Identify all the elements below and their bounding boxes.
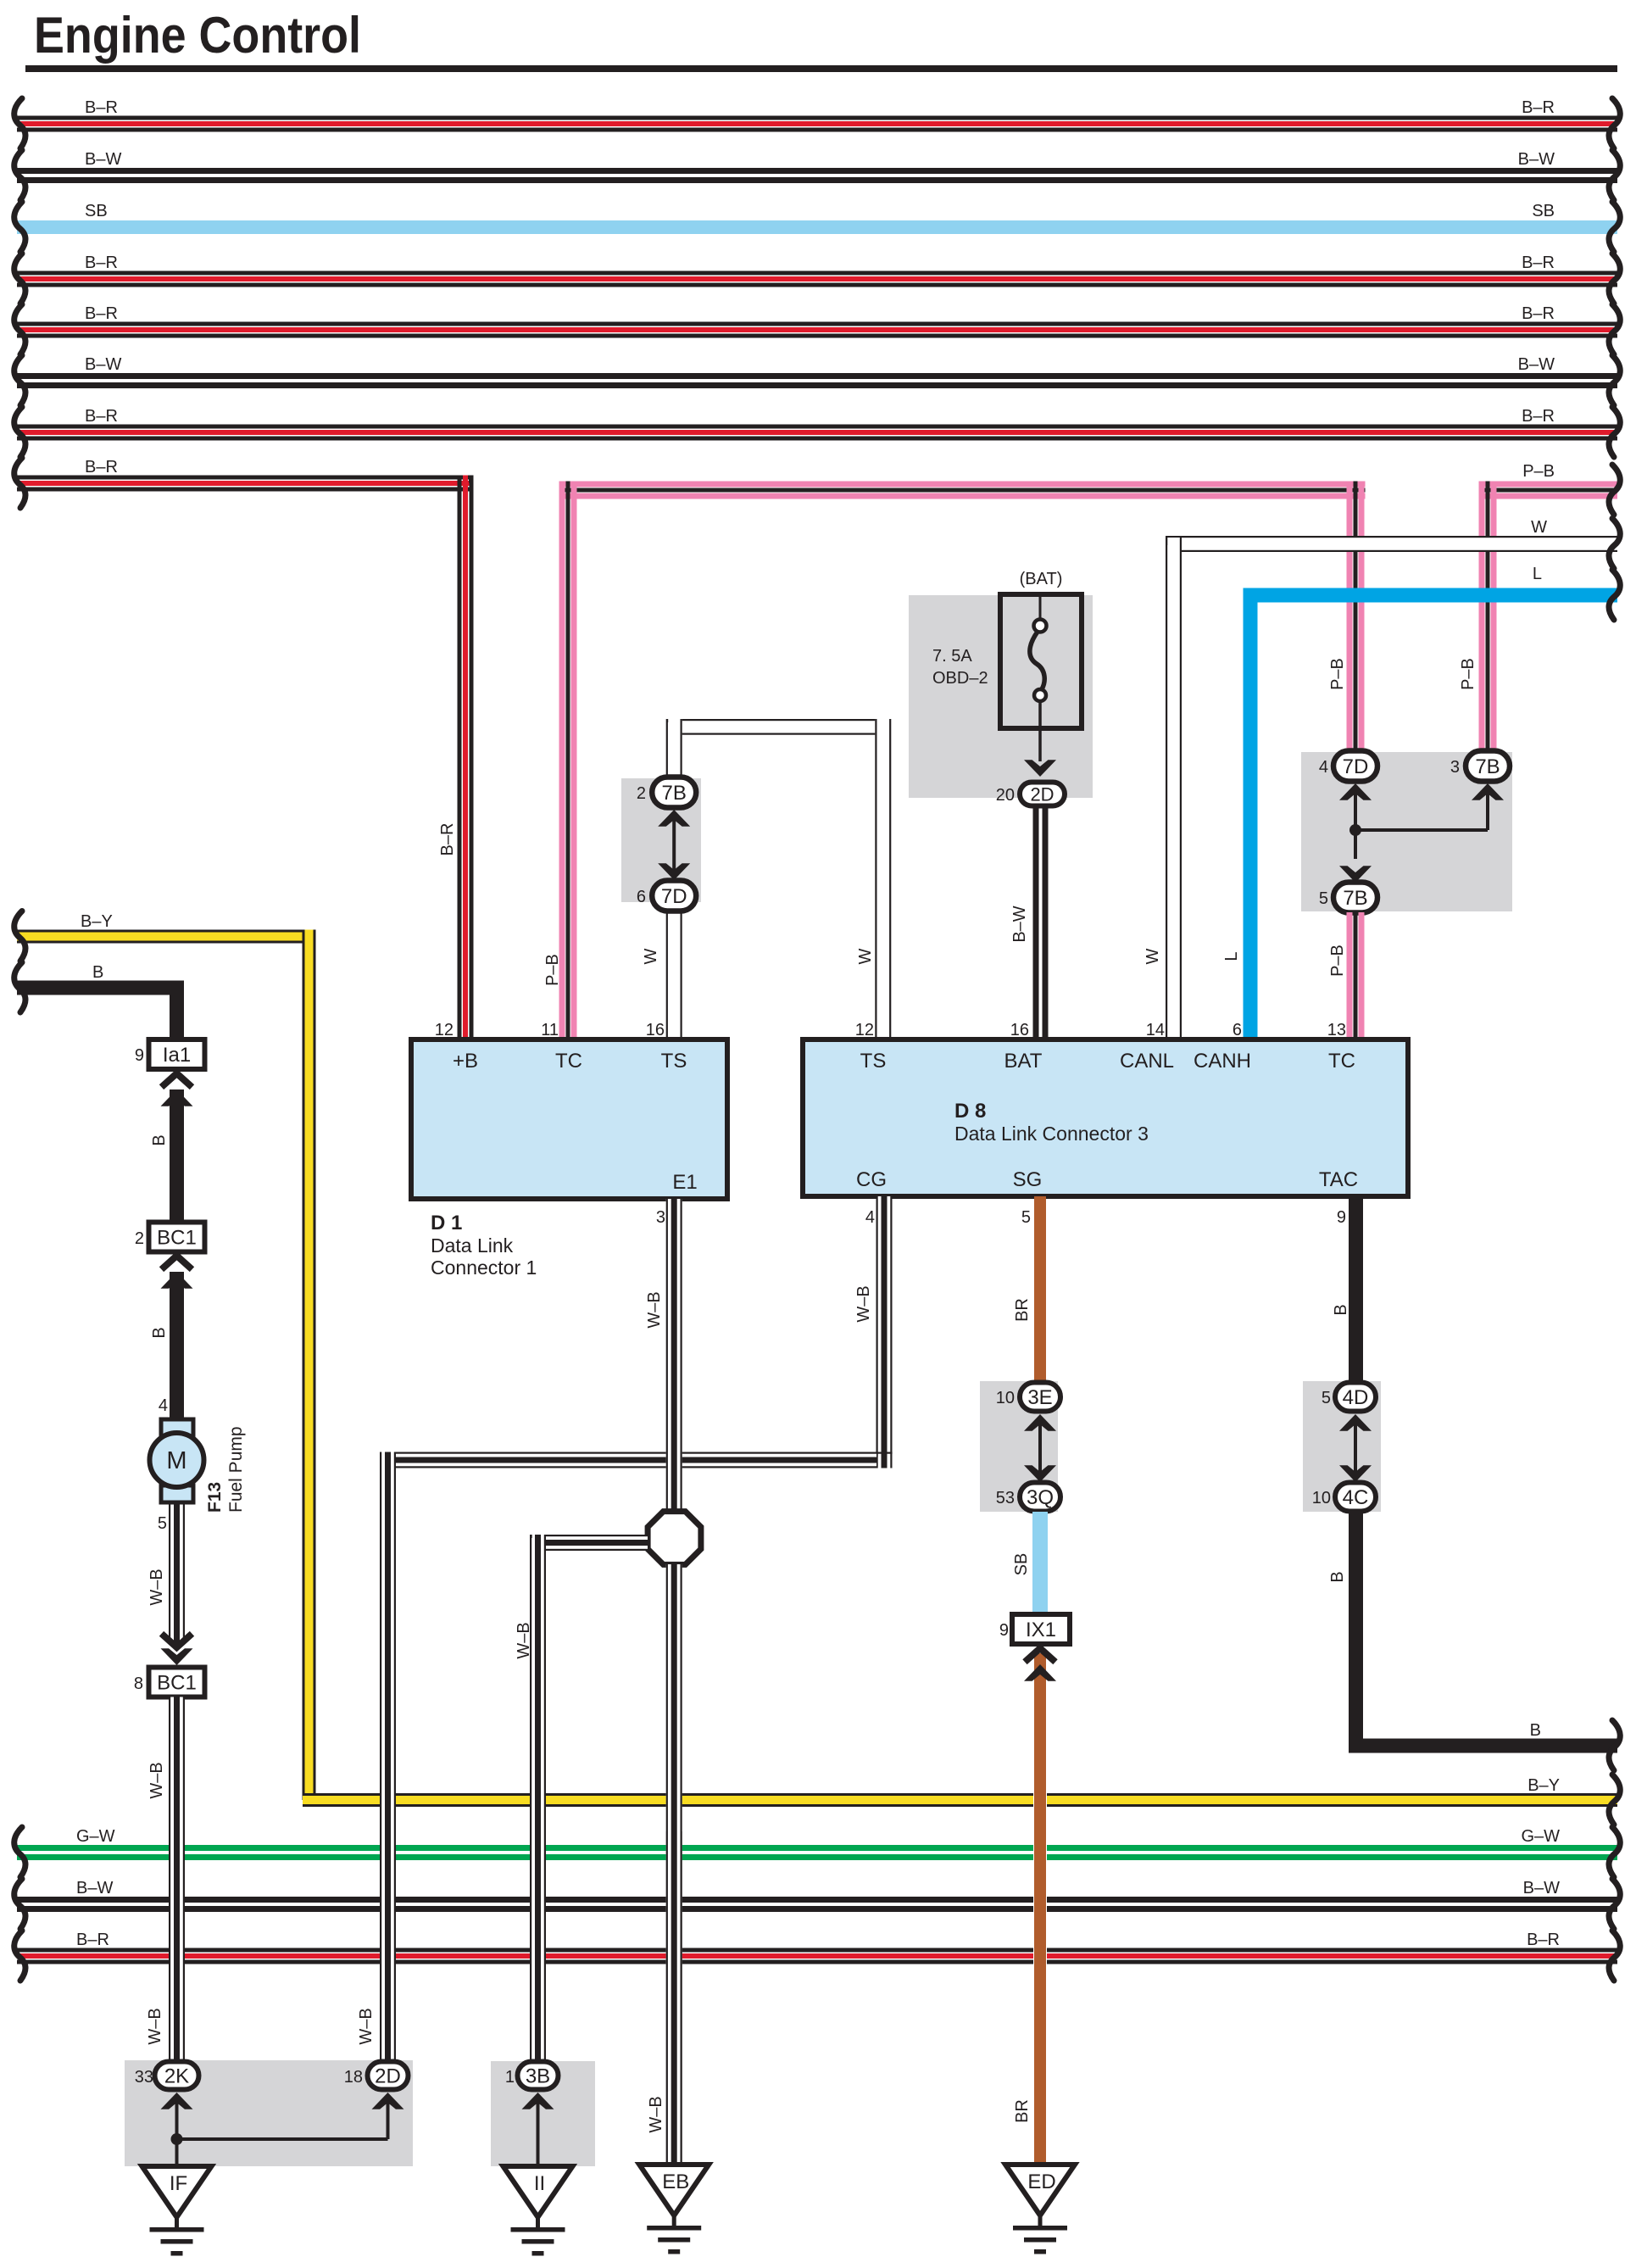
svg-text:11: 11 bbox=[541, 1021, 559, 1039]
svg-text:B–R: B–R bbox=[438, 823, 457, 856]
svg-text:W–B: W–B bbox=[647, 2096, 665, 2132]
svg-text:4: 4 bbox=[865, 1208, 875, 1227]
arrow up under 2D bbox=[372, 2092, 404, 2109]
grey area: connector 3B bbox=[491, 2061, 595, 2166]
wire: bottom bus B-R bbox=[17, 1948, 1617, 1953]
grey area: connector 3E/3Q bbox=[980, 1381, 1058, 1512]
left squiggle for B-W bbox=[14, 355, 25, 405]
svg-text:B–W: B–W bbox=[76, 1879, 113, 1897]
wire: W-B (EB) crossing bottom buses bbox=[666, 1831, 682, 2165]
svg-text:10: 10 bbox=[996, 1389, 1015, 1407]
fuse 7.5A OBD-2 box bbox=[1000, 594, 1082, 728]
arrow up under 2K bbox=[161, 2092, 193, 2109]
svg-text:B–W: B–W bbox=[1523, 1879, 1560, 1897]
svg-text:B–R: B–R bbox=[1522, 98, 1555, 117]
svg-text:12: 12 bbox=[435, 1021, 454, 1039]
svg-text:B–W: B–W bbox=[1518, 355, 1555, 374]
svg-text:3Q: 3Q bbox=[1027, 1486, 1054, 1509]
left squiggle B bbox=[14, 962, 25, 1012]
svg-text:CANL: CANL bbox=[1120, 1050, 1174, 1073]
svg-text:3E: 3E bbox=[1027, 1386, 1052, 1409]
octagon junction bbox=[648, 1512, 701, 1565]
svg-text:9: 9 bbox=[999, 1621, 1009, 1640]
svg-text:(BAT): (BAT) bbox=[1020, 570, 1063, 588]
wire: B vertical from D8 TAC pin 9 bbox=[1349, 1196, 1363, 1383]
svg-text:B: B bbox=[1328, 1571, 1347, 1582]
grey area: connector 2K/2D bbox=[125, 2060, 413, 2166]
wire: W-B (3B) crossing bottom buses bbox=[530, 1831, 546, 2062]
right squiggle for P-B bbox=[1609, 465, 1620, 515]
right squiggle for W bbox=[1609, 519, 1620, 569]
right squiggle for SB bbox=[1609, 202, 1620, 252]
left squiggle B-R bbox=[14, 1931, 25, 1981]
svg-text:W–B: W–B bbox=[357, 2008, 376, 2044]
svg-text:6: 6 bbox=[637, 888, 646, 906]
svg-text:G–W: G–W bbox=[1521, 1827, 1560, 1846]
arrow up under 7D bbox=[1339, 783, 1372, 800]
left squiggle for B-W bbox=[14, 150, 25, 200]
junction dot bbox=[1349, 824, 1361, 836]
svg-text:7D: 7D bbox=[1343, 755, 1369, 778]
wire: W-B horizontal (CG run to left) bbox=[381, 1454, 877, 1467]
svg-text:Data Link: Data Link bbox=[431, 1234, 514, 1257]
wire: BR (ED) crossing bottom buses bbox=[1033, 1831, 1047, 2165]
svg-text:CG: CG bbox=[856, 1168, 887, 1191]
svg-text:BC1: BC1 bbox=[157, 1227, 197, 1250]
svg-text:P–B: P–B bbox=[1522, 462, 1555, 481]
connector box 8 BC1 bbox=[149, 1668, 205, 1697]
wire: bottom bus G-W bbox=[17, 1845, 1617, 1851]
svg-text:B: B bbox=[1530, 1721, 1541, 1740]
svg-text:TC: TC bbox=[555, 1050, 582, 1073]
wire: top bus B-R at y=389 bbox=[17, 322, 1617, 326]
svg-text:16: 16 bbox=[1010, 1021, 1029, 1039]
svg-text:W: W bbox=[856, 948, 875, 964]
right squiggle B-W bbox=[1609, 1879, 1620, 1929]
svg-text:B–W: B–W bbox=[85, 150, 121, 169]
svg-text:SB: SB bbox=[85, 202, 108, 220]
wire: B vertical Ia1 to BC1 bbox=[170, 1089, 184, 1223]
svg-text:G–W: G–W bbox=[76, 1827, 115, 1846]
svg-text:P–B: P–B bbox=[1328, 945, 1347, 977]
title underline bbox=[25, 65, 1617, 72]
arrow down above 4C bbox=[1339, 1465, 1372, 1482]
wire: bottom bus B-W bbox=[17, 1897, 1617, 1903]
arrow down into BC1 (8) bbox=[162, 1634, 192, 1647]
arrow up into BC1 bbox=[162, 1256, 192, 1269]
svg-text:P–B: P–B bbox=[1328, 658, 1347, 690]
wire: P-B vertical drop to D1 TC pin 11 bbox=[559, 482, 565, 1040]
connector oval 1 3B bbox=[518, 2062, 559, 2090]
svg-text:12: 12 bbox=[855, 1021, 874, 1039]
svg-text:B–W: B–W bbox=[1518, 150, 1555, 169]
svg-text:W–B: W–B bbox=[515, 1622, 533, 1658]
wire: P-B vertical drop to connector 7B pin 3 bbox=[1479, 482, 1485, 755]
svg-text:Data Link Connector 3: Data Link Connector 3 bbox=[954, 1123, 1149, 1145]
wire: top bus B-R at y=329 bbox=[17, 271, 1617, 276]
wire: W-B from octagon left, to 3B drop bbox=[531, 1536, 648, 1549]
wire: W-B vertical from D8 CG pin 4 bbox=[876, 1196, 893, 1468]
connector oval 3 7B bbox=[1466, 751, 1510, 782]
wire: W-B vertical down to 2D pin 18 bbox=[380, 1452, 396, 2063]
wire: P-B vertical drop to connector 7D pin 4 bbox=[1347, 482, 1353, 755]
wire: W vertical at D1 TS pin 16 (lower segment) bbox=[666, 908, 682, 1039]
wire: top bus B-W at y=449 bbox=[17, 373, 1617, 379]
connector oval 20 2D bbox=[1020, 783, 1065, 806]
right squiggle for B-R bbox=[1609, 407, 1620, 457]
link line 7B-7D bbox=[672, 812, 676, 878]
wire: P-B horizontal segment from TC pin 11 drop to 7D pin 4 drop bbox=[559, 482, 1366, 488]
wire: B vertical BC1 to fuel pump bbox=[170, 1272, 184, 1421]
svg-text:9: 9 bbox=[135, 1046, 144, 1065]
svg-text:B–W: B–W bbox=[85, 355, 121, 374]
svg-text:L: L bbox=[1533, 565, 1542, 583]
wire: W-B (2K) crossing bottom buses bbox=[169, 1831, 185, 2062]
svg-text:13: 13 bbox=[1327, 1021, 1346, 1039]
svg-text:5: 5 bbox=[1021, 1208, 1031, 1227]
svg-text:CANH: CANH bbox=[1194, 1050, 1251, 1073]
wire: top bus B-R at y=146 bbox=[17, 116, 1617, 120]
svg-text:W–B: W–B bbox=[146, 2008, 164, 2044]
connector oval 18 2D bbox=[368, 2062, 409, 2090]
svg-text:B–Y: B–Y bbox=[81, 912, 113, 931]
svg-text:D 1: D 1 bbox=[431, 1212, 462, 1234]
wire: W vertical at D1 TS pin 16 (upper segment) bbox=[666, 719, 682, 780]
wire: W vertical at D8 TS pin 12 bbox=[875, 719, 891, 1039]
grey area: fuse block bbox=[909, 595, 1093, 798]
right squiggle B-Y bottom bbox=[1609, 1775, 1620, 1825]
junction dot (IF) bbox=[171, 2133, 183, 2145]
svg-text:4: 4 bbox=[1319, 758, 1328, 777]
wire: B vertical to Ia1 bbox=[170, 981, 184, 1040]
svg-text:18: 18 bbox=[344, 2068, 363, 2087]
svg-text:OBD–2: OBD–2 bbox=[932, 669, 988, 688]
svg-text:W: W bbox=[1144, 948, 1162, 964]
svg-text:+B: +B bbox=[453, 1050, 478, 1073]
svg-text:B–R: B–R bbox=[85, 407, 118, 426]
wire: W-B (2D) crossing bottom buses bbox=[380, 1831, 396, 2062]
ground ED bbox=[1005, 2165, 1075, 2215]
wire: W vertical from D8 CANL pin 14 bbox=[1166, 538, 1182, 1039]
left squiggle for SB bbox=[14, 202, 25, 252]
wire: B-Y horizontal bottom bbox=[303, 1793, 1617, 1796]
svg-text:53: 53 bbox=[996, 1489, 1015, 1507]
svg-text:2D: 2D bbox=[1030, 783, 1054, 805]
svg-text:2D: 2D bbox=[375, 2065, 401, 2088]
svg-text:B: B bbox=[150, 1134, 169, 1145]
arrow up under 4D bbox=[1339, 1414, 1372, 1431]
wire: W-B vertical from D1 E1 pin 3 to octagon bbox=[666, 1199, 682, 1512]
ground II bbox=[504, 2166, 573, 2217]
connector oval 2 7B bbox=[652, 777, 696, 808]
wire: fuse output down to 2D bbox=[1038, 701, 1042, 761]
svg-text:D 8: D 8 bbox=[954, 1100, 986, 1123]
wire: SB vertical from 3Q to IX1 bbox=[1032, 1512, 1048, 1614]
svg-text:B–R: B–R bbox=[1522, 254, 1555, 272]
left squiggle for B-R bbox=[14, 407, 25, 457]
right squiggle for B-W bbox=[1609, 355, 1620, 405]
wire: B horizontal to right margin bbox=[1349, 1739, 1617, 1753]
svg-text:II: II bbox=[534, 2172, 545, 2195]
svg-text:IX1: IX1 bbox=[1026, 1619, 1056, 1641]
svg-text:ED: ED bbox=[1027, 2170, 1055, 2193]
wire: W horizontal (CANL to right margin) bbox=[1166, 538, 1617, 550]
svg-text:TS: TS bbox=[661, 1050, 687, 1073]
svg-text:SB: SB bbox=[1012, 1553, 1031, 1576]
wire: W-B from fuel pump down bbox=[169, 1502, 170, 1645]
svg-text:Ia1: Ia1 bbox=[163, 1044, 191, 1067]
arrow up into Ia1 bbox=[162, 1073, 192, 1087]
left squiggle G-W bbox=[14, 1827, 25, 1877]
svg-text:BC1: BC1 bbox=[157, 1672, 197, 1695]
svg-text:B–R: B–R bbox=[76, 1931, 109, 1949]
wire: B-R bus row 8 (to D1 +B), horizontal part bbox=[17, 476, 473, 480]
left squiggle for B-R bbox=[14, 254, 25, 304]
svg-text:E1: E1 bbox=[672, 1171, 697, 1194]
left squiggle for B-R bbox=[14, 98, 25, 148]
wire: W-B vertical down to 3B pin 1 bbox=[530, 1535, 546, 2062]
svg-text:3B: 3B bbox=[526, 2065, 550, 2088]
svg-text:TC: TC bbox=[1328, 1050, 1355, 1073]
svg-text:7B: 7B bbox=[1475, 755, 1500, 778]
ground IF bbox=[142, 2166, 212, 2217]
grey area: connector 7D/7B/7B (right group) bbox=[1301, 752, 1512, 911]
svg-text:W–B: W–B bbox=[854, 1285, 873, 1322]
fuel pump motor M (F13) bbox=[161, 1419, 193, 1436]
fuse element symbol bbox=[1039, 597, 1042, 620]
svg-text:7D: 7D bbox=[661, 885, 687, 908]
svg-text:B–R: B–R bbox=[1527, 1931, 1560, 1949]
svg-text:L: L bbox=[1222, 951, 1241, 961]
svg-text:5: 5 bbox=[158, 1514, 167, 1533]
svg-text:B: B bbox=[92, 963, 103, 982]
svg-text:1: 1 bbox=[505, 2068, 515, 2087]
svg-text:9: 9 bbox=[1337, 1208, 1346, 1227]
svg-text:33: 33 bbox=[135, 2068, 153, 2087]
svg-text:TS: TS bbox=[860, 1050, 887, 1073]
wire: W-B from BC1 down to 2K bbox=[169, 1697, 185, 2063]
svg-text:8: 8 bbox=[134, 1675, 143, 1693]
svg-text:Connector 1: Connector 1 bbox=[431, 1257, 537, 1279]
svg-text:W–B: W–B bbox=[147, 1569, 166, 1605]
link 2D to IF junction bbox=[177, 2137, 388, 2141]
grey area: connector 4D/4C bbox=[1303, 1381, 1381, 1512]
svg-text:16: 16 bbox=[646, 1021, 665, 1039]
arrow up under 3E bbox=[1024, 1414, 1056, 1431]
right squiggle for B-W bbox=[1609, 150, 1620, 200]
svg-text:W: W bbox=[1531, 518, 1547, 537]
wire: top bus SB at y=268 bbox=[17, 220, 1617, 234]
arrow down to 5 7B bbox=[1339, 866, 1372, 883]
svg-text:P–B: P–B bbox=[543, 954, 562, 986]
right squiggle for B-R bbox=[1609, 254, 1620, 304]
wire: B-Y horizontal top-left bbox=[17, 930, 315, 933]
wire: B-R vertical drop to D1 pin 12 +B bbox=[458, 476, 462, 1040]
svg-text:SB: SB bbox=[1532, 202, 1555, 220]
svg-text:TAC: TAC bbox=[1319, 1168, 1358, 1191]
svg-text:14: 14 bbox=[1146, 1021, 1165, 1039]
wire: L horizontal (CANH to right margin) bbox=[1244, 588, 1618, 603]
grey area: connector 7B/7D (left pair) bbox=[621, 778, 701, 902]
svg-text:BR: BR bbox=[1013, 2099, 1032, 2123]
svg-text:B–Y: B–Y bbox=[1527, 1776, 1560, 1795]
svg-text:B–R: B–R bbox=[1522, 407, 1555, 426]
arrow up under 3B bbox=[522, 2092, 554, 2109]
arrow up from 7B bbox=[658, 810, 690, 827]
svg-text:2: 2 bbox=[135, 1229, 144, 1248]
svg-text:B–R: B–R bbox=[85, 254, 118, 272]
svg-text:20: 20 bbox=[996, 786, 1015, 805]
svg-text:F13: F13 bbox=[205, 1482, 225, 1513]
svg-text:4C: 4C bbox=[1343, 1486, 1369, 1509]
svg-text:B: B bbox=[1332, 1304, 1350, 1315]
svg-text:5: 5 bbox=[1319, 889, 1328, 908]
right squiggle B-R bbox=[1609, 1931, 1620, 1981]
connector box 2 BC1 bbox=[149, 1223, 205, 1252]
svg-text:Fuel Pump: Fuel Pump bbox=[226, 1426, 246, 1513]
svg-text:2: 2 bbox=[637, 784, 646, 803]
wire: B horizontal top-left bbox=[17, 981, 184, 995]
svg-text:B–R: B–R bbox=[85, 98, 118, 117]
wire: B-Y vertical bbox=[303, 930, 305, 1801]
connector oval 53 3Q bbox=[1020, 1483, 1060, 1512]
connector oval 5 4D bbox=[1335, 1383, 1376, 1412]
link lines and junction bbox=[1354, 786, 1357, 859]
svg-text:2K: 2K bbox=[164, 2065, 189, 2088]
wire: W-B from octagon bottom to EB bbox=[666, 1564, 682, 2165]
left squiggle B-Y bbox=[14, 911, 25, 961]
svg-text:10: 10 bbox=[1312, 1489, 1331, 1507]
connector box 9 Ia1 bbox=[149, 1039, 205, 1069]
wire: P-B horizontal segment from 7B pin 3 drop to right margin bbox=[1479, 482, 1618, 488]
wire: L vertical to D8 CANH pin 6 bbox=[1244, 588, 1258, 1040]
connector box 9 IX1 bbox=[1012, 1614, 1070, 1644]
svg-text:7. 5A: 7. 5A bbox=[932, 647, 972, 666]
wire: B vertical from 4C down bbox=[1349, 1512, 1363, 1753]
svg-text:M: M bbox=[166, 1447, 186, 1474]
svg-text:BAT: BAT bbox=[1004, 1050, 1043, 1073]
arrow into 2D connector bbox=[1024, 760, 1056, 777]
arrow down above 3Q bbox=[1024, 1465, 1056, 1482]
left squiggle B-W bbox=[14, 1879, 25, 1929]
wire: BR vertical from D8 SG pin 5 bbox=[1034, 1196, 1046, 1383]
arrow up into IX1 bbox=[1025, 1648, 1055, 1662]
connector oval 6 7D bbox=[652, 881, 696, 911]
svg-text:B–R: B–R bbox=[85, 304, 118, 323]
svg-text:SG: SG bbox=[1013, 1168, 1043, 1191]
svg-text:4D: 4D bbox=[1343, 1386, 1369, 1409]
svg-text:B: B bbox=[150, 1327, 169, 1338]
wire: W loop horizontal (TS D1 to TS D8) bbox=[666, 719, 891, 735]
svg-text:W: W bbox=[642, 948, 660, 964]
svg-text:EB: EB bbox=[662, 2170, 689, 2193]
svg-text:7B: 7B bbox=[662, 782, 687, 805]
svg-text:5: 5 bbox=[1322, 1389, 1331, 1407]
svg-text:Engine Control: Engine Control bbox=[34, 7, 361, 64]
wire: BR vertical from IX1 down to ED bbox=[1033, 1653, 1047, 2165]
left squiggle for B-R bbox=[14, 304, 25, 354]
arrow down to 7D bbox=[658, 863, 690, 880]
svg-text:6: 6 bbox=[1233, 1021, 1242, 1039]
right squiggle for B-R bbox=[1609, 304, 1620, 354]
wire: P-B vertical from 5 7B down to D8 TC pin 13 bbox=[1347, 912, 1353, 1039]
svg-text:3: 3 bbox=[656, 1208, 665, 1227]
svg-text:BR: BR bbox=[1013, 1298, 1032, 1322]
connector oval 4 7D bbox=[1333, 751, 1377, 782]
right squiggle B bbox=[1609, 1720, 1620, 1770]
arrow up under 7B bbox=[1472, 783, 1504, 800]
wire: top bus B-W at y=207 bbox=[17, 168, 1617, 174]
right squiggle G-W bbox=[1609, 1827, 1620, 1877]
svg-text:7B: 7B bbox=[1343, 887, 1367, 910]
wire: B-W vertical from 2D to D8 BAT pin 16 bbox=[1033, 805, 1039, 1039]
ground EB bbox=[639, 2165, 709, 2215]
right squiggle for B-R bbox=[1609, 98, 1620, 148]
svg-text:IF: IF bbox=[170, 2172, 187, 2195]
svg-text:3: 3 bbox=[1450, 758, 1460, 777]
wire: top bus B-R at y=510 bbox=[17, 425, 1617, 429]
svg-text:4: 4 bbox=[159, 1396, 168, 1415]
svg-text:B–W: B–W bbox=[1010, 906, 1029, 942]
svg-text:B–R: B–R bbox=[1522, 304, 1555, 323]
connector D8: Data Link Connector 3 bbox=[803, 1039, 1408, 1196]
connector oval 5 7B bbox=[1333, 883, 1377, 913]
svg-text:B–R: B–R bbox=[85, 458, 118, 476]
connector oval 33 2K bbox=[155, 2062, 199, 2090]
connector oval 10 4C bbox=[1335, 1483, 1376, 1512]
connector D1: Data Link Connector 1 bbox=[411, 1039, 727, 1199]
connector oval 10 3E bbox=[1020, 1383, 1060, 1412]
right squiggle for L bbox=[1609, 570, 1620, 620]
left squiggle for B-R row 8 bbox=[14, 458, 25, 508]
svg-text:W–B: W–B bbox=[147, 1762, 166, 1798]
svg-text:P–B: P–B bbox=[1459, 658, 1477, 690]
svg-text:W–B: W–B bbox=[645, 1291, 664, 1328]
